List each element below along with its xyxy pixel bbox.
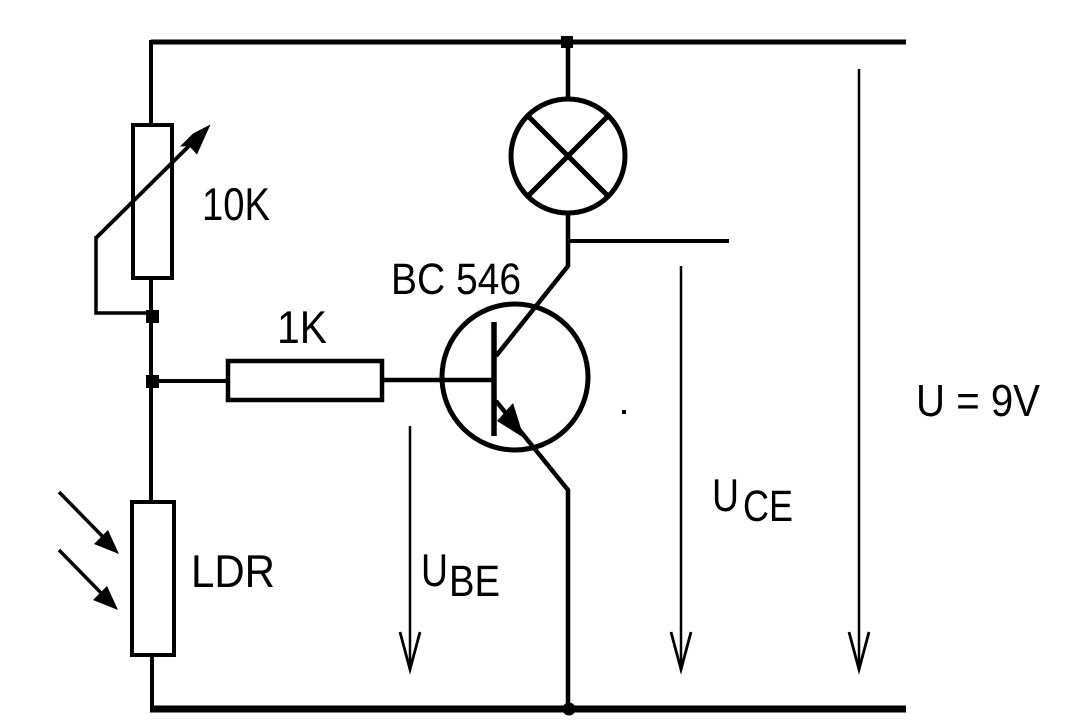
svg-text:BE: BE [449, 557, 500, 606]
lamp X chord 2 [528, 116, 609, 197]
resistor R2 1K body [228, 361, 382, 400]
LDR light arrow 1 head [94, 530, 119, 554]
junction emitter to bottom rail [563, 703, 576, 716]
svg-text:CE: CE [743, 482, 793, 531]
svg-text:U = 9V: U = 9V [916, 375, 1040, 426]
potentiometer R1 10K body [133, 125, 172, 278]
voltage arrow U_CE head [671, 632, 691, 670]
transistor emitter lead [496, 401, 568, 708]
transistor emitter arrowhead [497, 403, 524, 438]
LDR light arrow 2 shaft [59, 550, 106, 598]
wire lamp to top rail [566, 42, 571, 101]
svg-text:BC 546: BC 546 [391, 255, 521, 304]
junction top rail lamp node [561, 36, 573, 48]
lamp L1 circle [511, 99, 625, 213]
wire collector tick (UCE reference) [568, 239, 729, 243]
wire LDR bottom to ground rail [150, 655, 154, 710]
wire node B down to LDR [149, 381, 153, 504]
LDR light arrow 1 shaft [59, 492, 107, 541]
voltage arrow U battery head [849, 632, 869, 670]
lamp X chord 1 [528, 116, 609, 197]
junction node A (wiper tap) [146, 310, 159, 323]
LDR light arrow 2 head [93, 586, 118, 610]
transistor Q1 BC546 circle [442, 304, 588, 450]
transistor collector lead [496, 212, 568, 356]
LDR body [132, 502, 174, 655]
wire pot wiper down-left to node A [96, 236, 151, 313]
voltage arrow U_CE shaft [680, 266, 683, 668]
junction node B (divider tap to base resistor) [146, 375, 159, 388]
transistor base bar [491, 322, 497, 436]
wire top supply rail [151, 40, 906, 45]
wire bottom return rail [150, 706, 906, 713]
potentiometer wiper arrowhead [180, 125, 211, 155]
svg-text:U: U [712, 469, 739, 521]
voltage arrow U_BE shaft [409, 426, 412, 668]
wire pot bottom through node A to node B [149, 278, 153, 385]
svg-text:U: U [421, 544, 448, 596]
svg-text:1K: 1K [277, 301, 327, 353]
voltage arrow U_BE head [400, 632, 420, 670]
svg-text:LDR: LDR [191, 545, 275, 597]
svg-text:10K: 10K [202, 178, 270, 230]
wire node B to 1K resistor [151, 379, 230, 383]
scan speck [622, 410, 626, 414]
potentiometer wiper arrow shaft [96, 137, 198, 238]
voltage arrow U battery shaft [858, 69, 861, 668]
wire left rail from top rail to potentiometer [149, 40, 153, 127]
wire 1K to transistor base [382, 378, 494, 383]
